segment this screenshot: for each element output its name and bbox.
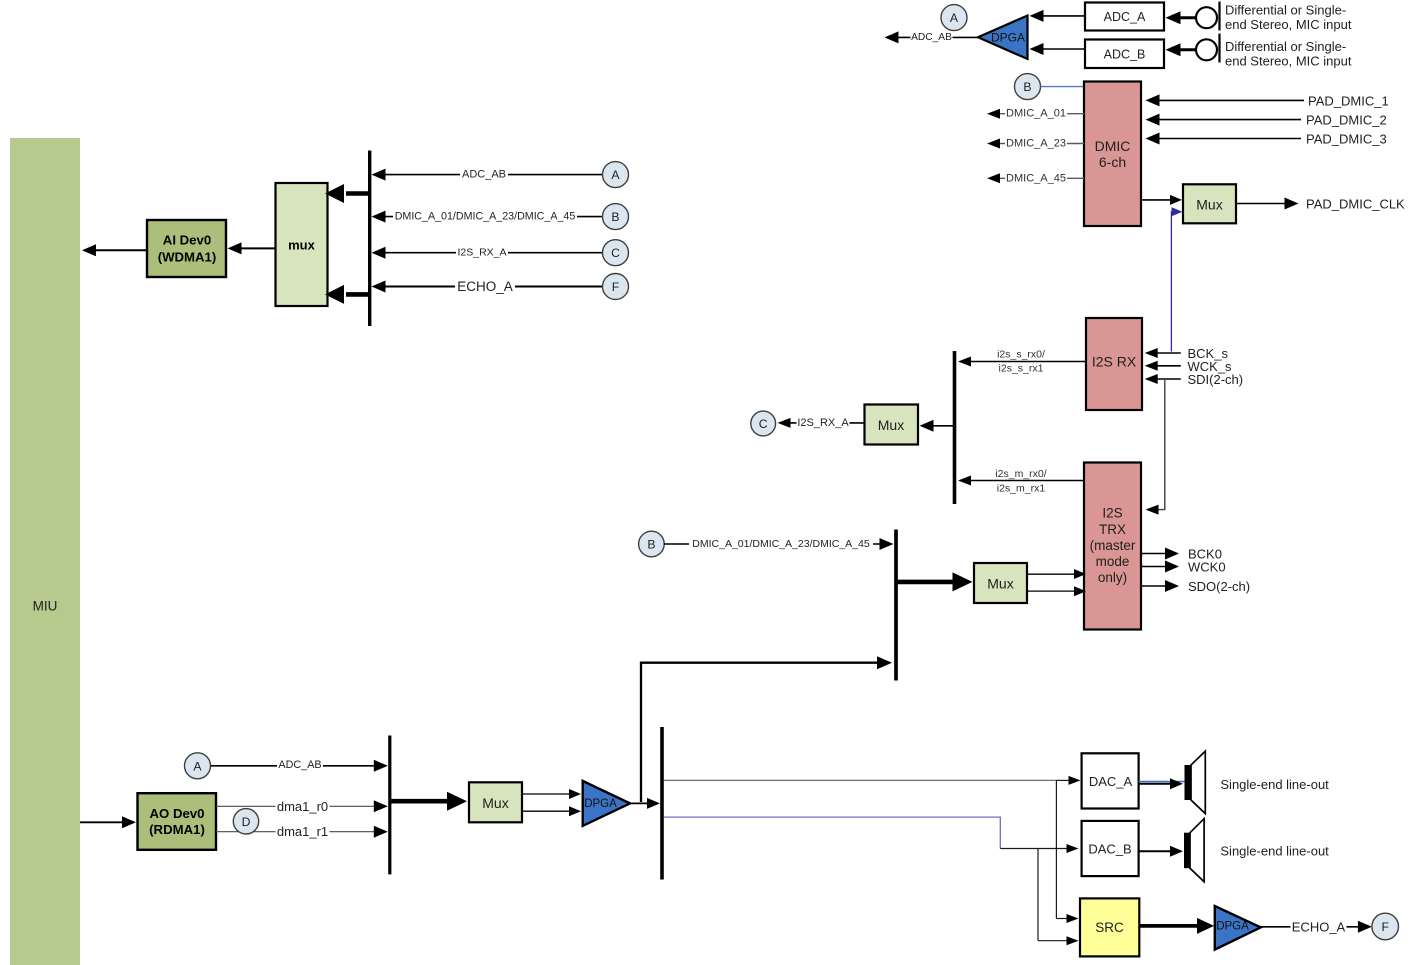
svg-text:dma1_r0: dma1_r0 — [277, 799, 328, 814]
svg-text:dma1_r1: dma1_r1 — [277, 824, 328, 839]
svg-text:mode: mode — [1096, 554, 1130, 569]
wire AI Dev0 to MIU — [95, 249, 147, 251]
svg-text:B: B — [647, 538, 655, 552]
block I2S RX — [1086, 318, 1142, 410]
svg-text:Mux: Mux — [878, 417, 904, 433]
svg-text:AI Dev0: AI Dev0 — [163, 233, 211, 248]
node D (dma) — [233, 809, 258, 834]
wire WCK0 out — [1141, 566, 1168, 568]
wire Mux to PAD_DMIC_CLK — [1236, 203, 1294, 205]
svg-text:ECHO_A: ECHO_A — [457, 279, 513, 294]
wire DMIC_A_45 out — [992, 177, 1084, 179]
wire bus to DAC_B (purple) — [664, 817, 1001, 848]
svg-text:SRC: SRC — [1095, 920, 1124, 935]
wire DPGA to DAC bus — [630, 802, 647, 804]
svg-text:PAD_DMIC_3: PAD_DMIC_3 — [1306, 131, 1387, 146]
wire PAD_DMIC_2 in — [1150, 119, 1301, 121]
block I2S TRX (master mode only) — [1084, 463, 1141, 630]
svg-text:B: B — [611, 210, 619, 224]
wire MIU to AO Dev0 — [80, 821, 128, 823]
svg-text:AO Dev0: AO Dev0 — [150, 806, 205, 821]
svg-text:SDO(2-ch): SDO(2-ch) — [1188, 579, 1250, 594]
speaker A — [1185, 765, 1191, 800]
wire DPGA to node F (ECHO_A) — [1261, 926, 1368, 928]
node B (trx input) — [639, 531, 665, 557]
wire mic A to ADC_A (thick) — [1176, 16, 1196, 19]
wire i2s_s_rx0/rx1 to bus — [962, 361, 1086, 363]
svg-text:DMIC_A_45: DMIC_A_45 — [1006, 172, 1066, 184]
node F (left) — [603, 274, 629, 300]
svg-text:F: F — [612, 280, 619, 294]
block Mux (I2S_RX_A) — [865, 405, 919, 445]
svg-text:TRX: TRX — [1099, 522, 1126, 537]
svg-text:DMIC_A_23: DMIC_A_23 — [1006, 138, 1066, 150]
wire dma1_r0 to bus — [216, 805, 384, 807]
wire Mux to I2S TRX ch0 — [1027, 573, 1078, 575]
svg-text:A: A — [193, 759, 202, 773]
node A (left) — [603, 162, 629, 188]
svg-text:Differential or Single-: Differential or Single- — [1225, 3, 1346, 18]
node F (echo) — [1372, 913, 1399, 940]
svg-text:I2S_RX_A: I2S_RX_A — [457, 247, 506, 259]
wire SDI(2-ch) in — [1150, 378, 1181, 380]
wire WCK_s in — [1150, 365, 1181, 367]
wire PAD_DMIC_3 in — [1150, 138, 1301, 140]
wire DMIC_A_01/DMIC_A_23/DMIC_A_45 to bus — [375, 216, 603, 218]
svg-text:ECHO_A: ECHO_A — [1292, 919, 1346, 934]
wire BCK_s to Mux (blue) — [1171, 212, 1174, 352]
svg-text:F: F — [1381, 920, 1388, 934]
wire DAC_A to speaker — [1139, 783, 1173, 785]
node C (i2s rx out) — [751, 411, 776, 436]
svg-text:Single-end line-out: Single-end line-out — [1220, 844, 1329, 859]
svg-text:DMIC_A_01/DMIC_A_23/DMIC_A_45: DMIC_A_01/DMIC_A_23/DMIC_A_45 — [395, 211, 576, 223]
svg-text:A: A — [611, 168, 620, 182]
bus DAC (vertical bar) — [660, 727, 664, 880]
block Mux (playback) — [469, 782, 522, 822]
svg-text:DPGA: DPGA — [991, 31, 1025, 45]
wire bus to Mux — [930, 425, 954, 427]
block mux (AI input mux) — [276, 183, 328, 306]
node C (left) — [603, 240, 629, 266]
svg-text:i2s_m_rx0/: i2s_m_rx0/ — [995, 468, 1046, 480]
svg-text:B: B — [1023, 80, 1031, 94]
svg-text:I2S RX: I2S RX — [1092, 354, 1137, 370]
wire Mux to I2S TRX ch1 — [1027, 590, 1078, 592]
wire SDI branch to I2S TRX — [1152, 379, 1165, 510]
op-amp DPGA (playback, points right) — [583, 781, 630, 826]
wire bus to mux top (thick) — [346, 191, 368, 196]
svg-text:DPGA: DPGA — [584, 798, 617, 810]
speaker B — [1184, 833, 1190, 869]
svg-text:(WDMA1): (WDMA1) — [158, 250, 217, 265]
svg-text:(RDMA1): (RDMA1) — [149, 822, 205, 837]
mic input jack B (circle) — [1196, 39, 1217, 60]
svg-text:i2s_m_rx1: i2s_m_rx1 — [997, 482, 1046, 494]
svg-text:ADC_B: ADC_B — [1104, 48, 1146, 62]
block AO Dev0 (RDMA1) — [138, 793, 217, 850]
block DAC_A — [1082, 753, 1139, 808]
svg-text:only): only) — [1098, 570, 1127, 585]
svg-text:Mux: Mux — [1196, 197, 1222, 213]
svg-text:C: C — [611, 246, 620, 260]
svg-text:PAD_DMIC_CLK: PAD_DMIC_CLK — [1306, 196, 1405, 211]
svg-text:I2S_RX_A: I2S_RX_A — [797, 417, 849, 429]
wire node B to DMIC (blue) — [1041, 86, 1085, 88]
node B (left) — [603, 204, 629, 230]
svg-text:C: C — [759, 417, 768, 431]
svg-text:DMIC_A_01: DMIC_A_01 — [1006, 108, 1066, 120]
block ADC_A — [1085, 3, 1164, 31]
wire bus to mux bottom (thick) — [346, 292, 368, 297]
block DMIC 6-ch — [1084, 82, 1141, 227]
svg-text:ADC_A: ADC_A — [1104, 10, 1146, 24]
bus I2S RX (vertical bar) — [953, 351, 957, 504]
svg-text:D: D — [242, 815, 251, 829]
svg-text:ADC_AB: ADC_AB — [911, 32, 952, 43]
wire Mux to DPGA ch1 — [522, 810, 573, 812]
wire Mux to node C — [782, 422, 865, 424]
wire node B DMIC_A to bus — [664, 543, 889, 545]
mic input jack A (circle) — [1196, 7, 1217, 28]
svg-text:MIU: MIU — [33, 599, 58, 614]
block AI Dev0 (WDMA1) — [147, 220, 226, 277]
wire I2S_RX_A to bus — [375, 252, 603, 254]
wire bus to Mux (thick) — [390, 799, 448, 804]
wire ADC_B to DPGA — [1040, 48, 1085, 50]
bus I2S TRX input (vertical bar) — [894, 530, 898, 681]
mic input B bar — [1218, 34, 1220, 63]
svg-text:ADC_AB: ADC_AB — [462, 169, 506, 181]
wire DAC_B to speaker — [1139, 850, 1173, 852]
svg-text:i2s_s_rx0/: i2s_s_rx0/ — [997, 349, 1045, 361]
bus playback (vertical bar) — [388, 736, 391, 875]
block Mux (I2S TRX) — [974, 563, 1027, 603]
wire DPGA feedback to TRX bus — [641, 663, 884, 802]
wire ADC_AB to bus — [375, 174, 603, 176]
block Mux (dmic clock) — [1183, 184, 1236, 223]
wire PAD_DMIC_1 in — [1150, 99, 1304, 101]
wire SRC to DPGA (thick) — [1139, 924, 1198, 928]
wire DAC_B branch down to SRC — [1037, 849, 1039, 941]
wire DAC_B segment — [1000, 848, 1072, 850]
svg-text:PAD_DMIC_1: PAD_DMIC_1 — [1308, 93, 1389, 108]
wire bus to Mux (thick) — [896, 580, 954, 585]
svg-text:Mux: Mux — [482, 795, 508, 811]
svg-text:SDI(2-ch): SDI(2-ch) — [1188, 372, 1244, 387]
wire DPGA to ADC_AB out — [898, 36, 978, 38]
block ADC_B — [1085, 40, 1164, 69]
wire DMIC to Mux — [1141, 199, 1172, 201]
wire ADC_AB to playback bus — [211, 765, 384, 767]
wire DAC_A branch down to SRC — [1055, 780, 1057, 918]
wire bus to DAC_A (gray) — [664, 779, 1057, 781]
node A (top right) — [941, 5, 967, 31]
node A (playback) — [185, 753, 211, 779]
svg-text:DPGA: DPGA — [1216, 920, 1249, 932]
svg-text:DMIC: DMIC — [1095, 138, 1131, 154]
wire i2s_m_rx0/rx1 to bus — [962, 480, 1084, 482]
block SRC — [1080, 898, 1139, 956]
svg-text:mux: mux — [288, 238, 316, 253]
svg-text:end Stereo, MIC input: end Stereo, MIC input — [1225, 53, 1352, 68]
wire DAC_A to speaker (blue) — [1139, 781, 1186, 783]
svg-text:WCK0: WCK0 — [1188, 560, 1226, 575]
op-amp DPGA (echo, points right) — [1215, 906, 1261, 950]
svg-text:DAC_A: DAC_A — [1089, 774, 1133, 789]
node B (dmic select) — [1015, 74, 1041, 100]
svg-text:I2S: I2S — [1102, 506, 1122, 521]
wire SDO(2-ch) out — [1141, 585, 1168, 587]
svg-text:(master: (master — [1090, 538, 1136, 553]
svg-text:DAC_B: DAC_B — [1088, 842, 1131, 857]
op-amp DPGA (ADC path, points left) — [978, 16, 1028, 60]
wire ADC_A to DPGA — [1040, 15, 1085, 17]
wire ECHO_A to bus — [375, 286, 603, 288]
svg-text:ADC_AB: ADC_AB — [278, 759, 321, 771]
svg-text:PAD_DMIC_2: PAD_DMIC_2 — [1306, 113, 1387, 128]
wire dma1_r1 to bus — [216, 831, 384, 833]
wire mic B to ADC_B (thick) — [1176, 48, 1196, 51]
svg-text:Single-end line-out: Single-end line-out — [1220, 777, 1329, 792]
svg-text:i2s_s_rx1: i2s_s_rx1 — [999, 362, 1044, 374]
wire Mux to DPGA ch0 — [522, 793, 573, 795]
wire DMIC_A_01 out — [992, 113, 1084, 115]
wire DMIC_A_23 out — [992, 143, 1084, 145]
bus AI input (vertical bar) — [368, 151, 371, 327]
wire BCK_s in — [1150, 352, 1181, 354]
wire mux to AI Dev0 — [240, 247, 276, 249]
svg-text:end Stereo, MIC input: end Stereo, MIC input — [1225, 17, 1352, 32]
svg-text:Mux: Mux — [987, 576, 1013, 592]
mic input A bar — [1218, 2, 1220, 31]
svg-text:A: A — [950, 11, 959, 25]
wire BCK0 out — [1141, 553, 1168, 555]
svg-text:Differential or Single-: Differential or Single- — [1225, 39, 1346, 54]
svg-text:6-ch: 6-ch — [1099, 154, 1126, 170]
block DAC_B — [1082, 821, 1139, 876]
block MIU (memory interface) — [10, 138, 80, 965]
svg-text:DMIC_A_01/DMIC_A_23/DMIC_A_45: DMIC_A_01/DMIC_A_23/DMIC_A_45 — [692, 538, 870, 550]
